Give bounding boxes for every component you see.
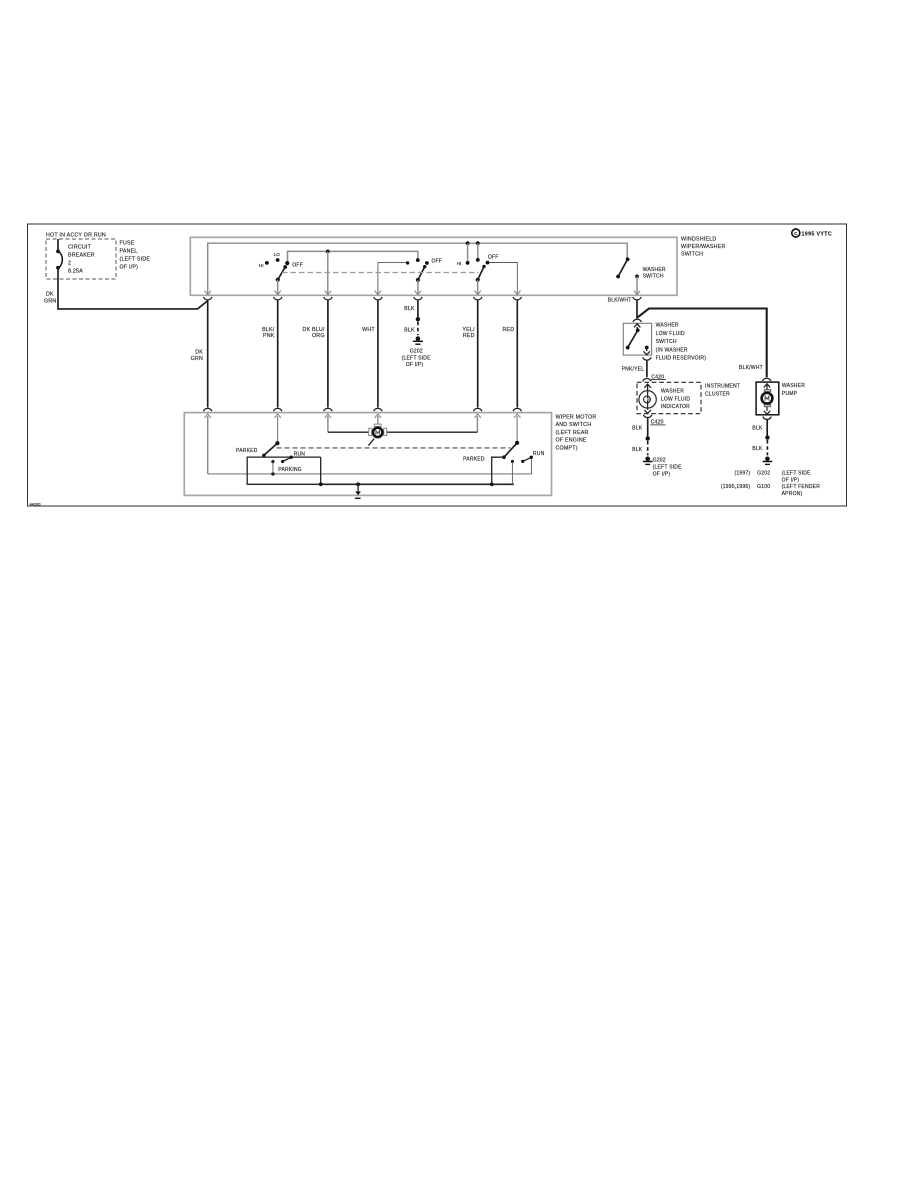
svg-text:C: C <box>794 231 797 236</box>
svg-text:G202: G202 <box>653 458 666 464</box>
ground wiper motor internal <box>355 484 361 498</box>
wire WHT riser to run contact <box>378 263 407 295</box>
connector mark pump entry <box>762 378 771 381</box>
right park switch lever <box>463 441 519 463</box>
label WASHER PUMP <box>782 383 805 397</box>
label (1997) G202 (LEFT SIDE OF I/P) <box>735 471 812 484</box>
svg-text:GRN: GRN <box>44 298 56 304</box>
svg-text:RED: RED <box>463 333 475 339</box>
svg-text:PARKING: PARKING <box>278 467 302 473</box>
node run feed junction <box>271 472 274 475</box>
svg-text:OF I/P): OF I/P) <box>120 265 139 271</box>
wire PNK/YEL <box>622 361 647 378</box>
svg-text:OF I/P): OF I/P) <box>406 362 424 368</box>
label DK BLU/ORG <box>303 327 325 339</box>
label INSTRUMENT CLUSTER <box>705 384 740 398</box>
svg-text:PUMP: PUMP <box>782 391 798 397</box>
svg-text:(LEFT SIDE: (LEFT SIDE <box>120 257 151 263</box>
svg-text:RUN: RUN <box>294 452 306 458</box>
svg-text:YEL/: YEL/ <box>462 327 475 333</box>
left park switch contact frame <box>247 457 321 484</box>
wire off link line <box>288 251 418 262</box>
svg-text:ORG: ORG <box>312 333 325 339</box>
motor box entry arrowheads <box>205 414 521 418</box>
node bus junction <box>466 241 470 245</box>
svg-text:WASHER: WASHER <box>661 388 684 394</box>
wire BLK/PNK to park lever <box>277 416 279 443</box>
svg-text:G202: G202 <box>757 471 770 477</box>
svg-text:FUSE: FUSE <box>120 241 135 247</box>
label BLK/PNK <box>262 327 275 339</box>
fuse panel dashed box <box>46 239 116 279</box>
node run feed contact <box>406 261 409 264</box>
wire WHT vertical <box>377 300 379 407</box>
svg-text:OF I/P): OF I/P) <box>653 471 671 477</box>
svg-text:SWITCH: SWITCH <box>643 273 664 279</box>
washer switch lever <box>616 257 666 295</box>
svg-text:WASHER: WASHER <box>656 323 679 329</box>
svg-text:4A200: 4A200 <box>30 503 41 507</box>
left run contact <box>281 452 305 463</box>
wiper motor M <box>369 424 387 437</box>
wire motor left lead <box>328 431 369 433</box>
switch box exit connector marks <box>203 297 641 300</box>
washer low fluid switch box <box>623 323 651 355</box>
svg-text:BLK: BLK <box>404 306 415 312</box>
wire motor right lead <box>387 431 478 433</box>
wire HI riser switch3 <box>467 243 469 262</box>
svg-text:(LEFT FENDER: (LEFT FENDER <box>782 484 821 490</box>
svg-text:1995 VYTC: 1995 VYTC <box>802 232 833 238</box>
svg-text:BLK/WHT: BLK/WHT <box>608 298 632 304</box>
fluid switch entry arrowhead <box>634 324 640 328</box>
left park switch lever <box>236 441 279 457</box>
svg-text:BLK: BLK <box>632 426 643 432</box>
ground G202 cluster <box>643 457 682 478</box>
svg-text:LOW FLUID: LOW FLUID <box>656 331 685 337</box>
svg-text:CIRCUIT: CIRCUIT <box>68 245 92 251</box>
svg-text:BLK: BLK <box>752 446 763 452</box>
label YEL/RED <box>462 327 475 339</box>
right run contact <box>521 451 544 463</box>
wire DK GRN from breaker to switch <box>44 268 208 309</box>
node bus junction ground <box>356 482 360 486</box>
svg-text:(LEFT SIDE: (LEFT SIDE <box>782 471 812 477</box>
wire YEL/RED vertical <box>477 300 479 407</box>
wire DK BLU/ORG to motor <box>327 416 329 432</box>
svg-text:CLUSTER: CLUSTER <box>705 391 730 397</box>
svg-text:G100: G100 <box>757 484 770 490</box>
svg-text:WASHER: WASHER <box>643 267 666 273</box>
wiper switch 3 OFF contact and lever <box>476 255 499 295</box>
svg-text:(1995,1996): (1995,1996) <box>721 484 751 490</box>
svg-text:OFF: OFF <box>432 258 443 264</box>
wire DK BLU/ORG vertical <box>327 300 329 407</box>
svg-text:SWITCH: SWITCH <box>681 252 703 258</box>
svg-text:PANEL: PANEL <box>120 249 138 255</box>
svg-text:(1997): (1997) <box>735 471 751 477</box>
svg-text:PARKED: PARKED <box>463 457 485 463</box>
svg-text:BREAKER: BREAKER <box>68 253 95 259</box>
svg-text:2: 2 <box>68 261 71 267</box>
label WIPER MOTOR AND SWITCH (LEFT REAR OF ENGINE COMPT) <box>556 414 597 451</box>
wire feed bus inside switch <box>208 243 628 295</box>
svg-text:PNK: PNK <box>263 333 275 339</box>
svg-text:PARKED: PARKED <box>236 448 258 454</box>
connector mark fluid switch exit <box>643 357 652 360</box>
svg-text:(IN WASHER: (IN WASHER <box>656 347 688 353</box>
svg-text:HI: HI <box>259 263 264 268</box>
right middle contact stub <box>511 460 514 484</box>
svg-text:RED: RED <box>502 327 514 333</box>
switch box exit arrowheads <box>205 291 641 295</box>
svg-text:WHT: WHT <box>362 327 375 333</box>
connector C420 upper <box>643 374 666 381</box>
wiper motor and switch box <box>184 413 551 496</box>
connector mark fluid switch entry <box>633 319 642 322</box>
svg-text:BLK: BLK <box>752 426 763 432</box>
svg-text:(LEFT SIDE: (LEFT SIDE <box>653 465 683 471</box>
svg-text:BLK: BLK <box>404 328 415 334</box>
fluid switch output contact <box>644 346 650 355</box>
node bus junction <box>476 241 480 245</box>
wiper switch 1 OFF contact and lever <box>276 261 303 295</box>
diagram frame border <box>28 224 847 507</box>
copyright mark 1995 VYTC <box>792 229 832 238</box>
right parked contact line <box>492 457 504 484</box>
node bus junction right <box>490 482 494 486</box>
svg-text:(LEFT REAR: (LEFT REAR <box>556 430 589 436</box>
label FUSE PANEL (LEFT SIDE OF I/P) <box>120 241 151 271</box>
svg-text:PNK/YEL: PNK/YEL <box>622 366 645 372</box>
node off link junction <box>326 250 330 254</box>
svg-text:WIPER MOTOR: WIPER MOTOR <box>556 414 597 420</box>
wire BLK/WHT from washer switch <box>608 298 767 378</box>
motor crank linkage <box>368 439 374 446</box>
svg-text:WASHER: WASHER <box>782 383 805 389</box>
connector mark pump exit <box>763 417 772 420</box>
wire BLK from cluster <box>632 418 650 455</box>
park linkage dashed <box>277 447 511 449</box>
svg-text:LO: LO <box>274 252 281 257</box>
ground G202/G100 pump <box>763 457 773 465</box>
label DK GRN <box>191 350 204 362</box>
svg-text:WINDSHIELD: WINDSHIELD <box>681 237 716 243</box>
svg-text:AND SWITCH: AND SWITCH <box>556 422 592 428</box>
wire BLK from pump <box>752 420 769 455</box>
ground G202 (left side of I/P) <box>402 336 432 367</box>
wiper switch 1 HI contact <box>259 261 269 268</box>
label (1995,1996) G100 (LEFT FENDER APRON) <box>721 484 820 497</box>
svg-text:INDICATOR: INDICATOR <box>661 404 690 410</box>
svg-text:8.25A: 8.25A <box>68 269 83 275</box>
wiper switch 1 LO contact <box>274 252 281 262</box>
wire run feed line <box>208 458 532 474</box>
svg-text:OFF: OFF <box>292 262 303 268</box>
windshield wiper/washer switch box <box>190 237 677 295</box>
svg-text:WIPER/WASHER: WIPER/WASHER <box>681 244 726 250</box>
wiper switch 3 HI contact <box>457 261 470 266</box>
wire RED riser from off contact <box>489 263 518 296</box>
svg-text:APRON): APRON) <box>782 491 803 497</box>
svg-text:BLK: BLK <box>632 447 643 453</box>
fluid switch lever <box>626 327 640 350</box>
wire RED vertical <box>516 300 518 407</box>
mechanical linkage dashed <box>282 272 479 274</box>
washer pump motor M <box>762 384 773 415</box>
svg-text:OFF: OFF <box>488 255 499 261</box>
washer pump box <box>756 382 779 415</box>
svg-text:BLK/WHT: BLK/WHT <box>739 365 763 371</box>
wire DK GRN run feed inside motor box <box>207 416 209 474</box>
wire RED to park lever <box>516 416 518 443</box>
svg-text:(LEFT SIDE: (LEFT SIDE <box>402 356 432 362</box>
circuit breaker 2 8.25A <box>56 239 95 275</box>
wire WHT to motor <box>377 416 379 424</box>
svg-text:RUN: RUN <box>533 451 545 457</box>
node bus junction left <box>319 482 323 486</box>
svg-text:DK: DK <box>46 292 54 298</box>
motor box entry connector marks <box>203 408 521 411</box>
label WINDSHIELD WIPER/WASHER SWITCH <box>681 237 726 258</box>
svg-text:SWITCH: SWITCH <box>656 339 677 345</box>
label WASHER LOW FLUID SWITCH (IN WASHER FLUID RESERVOIR) <box>656 323 707 362</box>
svg-text:HOT IN ACCY OR RUN: HOT IN ACCY OR RUN <box>46 232 106 238</box>
wire LO riser switch3 <box>477 243 479 259</box>
wire DK BLU/ORG riser <box>327 251 329 295</box>
washer low fluid indicator <box>639 384 690 413</box>
wire BLK to ground G202 <box>404 300 420 335</box>
connector C420 lower <box>643 415 665 426</box>
svg-text:COMPT): COMPT) <box>556 446 578 452</box>
svg-text:OF I/P): OF I/P) <box>782 478 800 484</box>
wire YEL/RED to motor <box>476 416 478 432</box>
wire DK GRN vertical <box>207 300 209 407</box>
svg-text:BLK/: BLK/ <box>262 327 275 333</box>
svg-text:DK BLU/: DK BLU/ <box>303 327 325 333</box>
parking contact stub <box>271 460 302 474</box>
svg-text:INSTRUMENT: INSTRUMENT <box>705 384 740 390</box>
park common bus <box>321 483 514 485</box>
svg-text:HI: HI <box>457 261 462 266</box>
svg-text:LOW FLUID: LOW FLUID <box>661 396 690 402</box>
svg-text:FLUID RESERVOIR): FLUID RESERVOIR) <box>656 356 707 362</box>
wiper switch 2 OFF contact and lever <box>416 258 442 295</box>
wire BLK/PNK vertical <box>277 300 279 407</box>
instrument cluster dashed box <box>637 382 701 413</box>
svg-text:DK: DK <box>195 350 203 356</box>
svg-text:G202: G202 <box>410 348 423 354</box>
svg-text:OF ENGINE: OF ENGINE <box>556 438 587 444</box>
svg-text:GRN: GRN <box>191 356 203 362</box>
